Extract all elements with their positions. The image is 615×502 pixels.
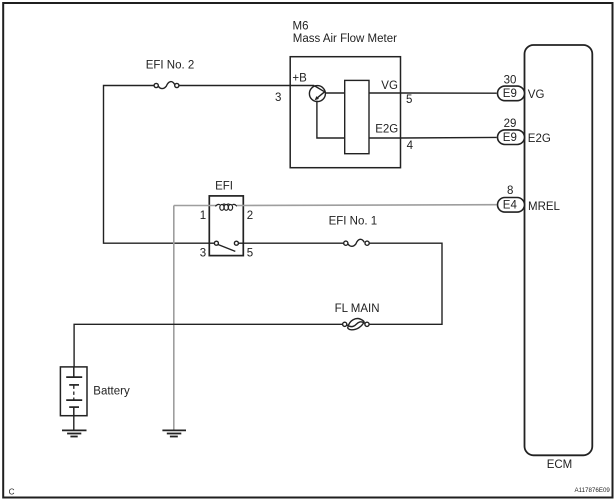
wire +B entry to sensor circle [290,85,314,87]
resistor sensing element rectangle [345,80,369,153]
wire resistor to box edge E2G row [369,137,401,139]
svg-text:E2G: E2G [528,133,551,145]
svg-text:3: 3 [275,92,281,104]
svg-text:E9: E9 [503,132,517,144]
label EFI No. 1 [329,215,378,227]
wire resistor to box edge VG row [369,92,401,94]
svg-text:M6: M6 [293,21,309,33]
label VG inside M6 [381,80,398,92]
pin 4 label of M6 [407,140,414,152]
label EFI No. 2 [146,59,195,71]
svg-text:VG: VG [381,80,398,92]
pin 5 label of M6 [406,94,412,106]
svg-text:4: 4 [407,140,414,152]
wire EFI No. 2 fuse to MAF +B (pin 3) [179,85,290,87]
label Battery [93,386,130,398]
wire FL MAIN to battery positive [74,324,343,367]
op-amp M6 Mass Air Flow Meter box [290,57,400,168]
ground (battery) [62,430,87,436]
wire E2G: M6 pin 4 to ECM connector E9-29 [401,136,497,139]
wire gray: ground drop from coil node [173,206,175,431]
label E2G inside M6 [375,124,398,136]
ECM box U1 [525,45,593,455]
svg-text:C: C [9,487,15,496]
svg-text:30: 30 [504,75,517,87]
label M6 / Mass Air Flow Meter [293,21,398,45]
wire VG: M6 pin 5 to ECM connector E9-30 [401,92,497,94]
svg-text:3: 3 [200,247,206,259]
wire gray: relay coil pin 2 to ECM connector E4-8 (MREL) [237,204,497,207]
svg-text:EFI No. 2: EFI No. 2 [146,59,195,71]
svg-text:EFI No. 1: EFI No. 1 [329,215,378,227]
label ECM [547,459,573,471]
svg-text:1: 1 [200,210,206,222]
svg-text:EFI: EFI [215,181,233,193]
wire gray: relay coil pin 1 to ground wire [174,205,216,207]
svg-text:8: 8 [507,185,513,197]
fuse EFI No. 2 [154,82,179,89]
svg-text:E9: E9 [503,88,517,100]
relay pin number labels 1 2 3 5 [200,210,253,259]
wire relay pin 5 to EFI No. 1 fuse [243,242,343,244]
wire relay pin 3 up and right to EFI No. 2 fuse [104,86,210,244]
fusible link FL MAIN [343,319,370,330]
connector E9 pin 29 (E2G) [498,118,551,145]
svg-text:E4: E4 [503,200,518,212]
svg-text:+B: +B [292,73,307,85]
svg-text:2: 2 [247,210,253,222]
svg-text:ECM: ECM [547,459,573,471]
sensor element (hot wire) circle of MAF [309,86,325,102]
svg-text:29: 29 [504,118,517,130]
svg-text:Battery: Battery [93,386,130,398]
label +B [292,73,307,85]
connector E4 pin 8 (MREL) [498,185,561,213]
svg-text:FL MAIN: FL MAIN [335,303,380,315]
label EFI (relay) [215,181,233,193]
label FL MAIN [335,303,380,315]
ground (relay coil) [162,430,186,436]
drawing number A117876E09 [575,487,611,494]
relay contact pins and switch [209,241,243,251]
pin 3 label of M6 [275,92,281,104]
svg-text:MREL: MREL [528,201,561,213]
svg-text:VG: VG [528,89,545,101]
connector E9 pin 30 (VG) [498,75,545,102]
svg-text:A117876E09: A117876E09 [575,487,611,494]
fuse EFI No. 1 [344,239,370,246]
svg-text:Mass Air Flow Meter: Mass Air Flow Meter [293,33,397,45]
wire sensor circle bottom loop to resistor (bottom row) [317,101,345,138]
svg-text:5: 5 [406,94,412,106]
svg-text:5: 5 [247,247,253,259]
relay coil L1 [215,204,237,210]
battery B1 [60,367,87,416]
relay EFI box [209,196,243,256]
svg-text:E2G: E2G [375,124,398,136]
wire sensor circle to measuring resistor (top row) [326,92,345,94]
wire EFI No. 1 fuse right, down, to FL MAIN [369,243,442,324]
corner index letter C [9,487,15,496]
wire battery negative to ground [73,416,75,431]
